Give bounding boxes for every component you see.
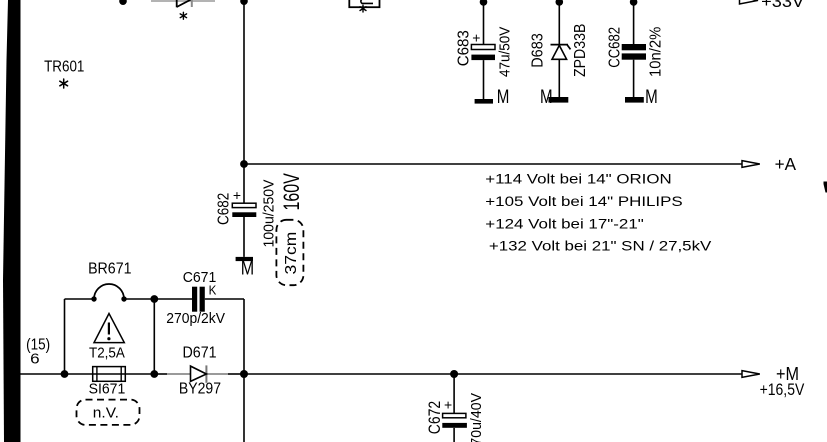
node loop bottom-left xyxy=(61,370,69,378)
ground M (CC682) xyxy=(625,87,658,108)
asterisk under resistor box xyxy=(360,5,366,12)
node loop top-right xyxy=(150,295,158,303)
ground M (C683) xyxy=(475,87,510,108)
capacitor C682 xyxy=(216,164,278,257)
svg-text:M: M xyxy=(241,259,254,280)
wire loop top-left segment xyxy=(65,298,95,300)
svg-text:C672: C672 xyxy=(426,401,444,434)
partial glyph cut at right edge xyxy=(824,182,827,193)
left black margin bar xyxy=(3,0,21,442)
diode (cut off at top edge) xyxy=(177,0,191,7)
asterisk under top diode xyxy=(180,12,186,19)
node top of main vertical xyxy=(240,0,248,5)
svg-text:+114 Volt bei 14" ORION: +114 Volt bei 14" ORION xyxy=(485,171,671,187)
wire +A rail xyxy=(244,163,742,165)
svg-text:+124 Volt bei 17"-21": +124 Volt bei 17"-21" xyxy=(485,217,644,233)
voltage note text block xyxy=(485,171,712,254)
arrow +M xyxy=(742,371,760,378)
fuse SI671 xyxy=(89,367,126,398)
svg-text:+A: +A xyxy=(775,154,797,174)
svg-text:160V: 160V xyxy=(279,173,304,211)
svg-text:SI671: SI671 xyxy=(89,381,126,398)
svg-text:+: + xyxy=(444,396,452,412)
svg-text:TR601: TR601 xyxy=(44,59,84,76)
svg-text:BY297: BY297 xyxy=(179,381,221,398)
svg-text:K: K xyxy=(209,282,217,297)
svg-text:37cm: 37cm xyxy=(283,232,300,275)
node top-left junction xyxy=(119,0,127,5)
node +A junction xyxy=(240,160,248,168)
warning triangle T2,5A xyxy=(89,314,126,362)
wire +M rail xyxy=(244,373,742,375)
capacitor C683 branch xyxy=(456,0,514,99)
svg-text:6: 6 xyxy=(30,351,40,367)
arrow +A xyxy=(742,161,760,168)
zener diode D683 branch xyxy=(530,0,590,97)
resistor box (cut off at top edge) xyxy=(349,0,379,7)
wire loop bottom segment xyxy=(65,373,155,375)
capacitor C671 (series coupling) xyxy=(154,269,244,327)
svg-text:470u/40V: 470u/40V xyxy=(468,393,485,442)
capacitor CC682 branch xyxy=(607,0,665,97)
ground M (C682) xyxy=(236,257,255,280)
asterisk under TR601 xyxy=(60,79,68,88)
capacitor C672 branch xyxy=(426,374,485,442)
svg-text:M: M xyxy=(497,87,510,108)
bridge BR671 arc xyxy=(94,284,124,299)
svg-text:47u/50V: 47u/50V xyxy=(497,27,514,77)
wire loop left vertical xyxy=(64,299,66,374)
svg-text:270p/2kV: 270p/2kV xyxy=(166,311,225,327)
wire top bus (gray, cut off at top edge) xyxy=(151,0,215,2)
diode D671 xyxy=(179,344,221,397)
svg-text:n.V.: n.V. xyxy=(93,405,119,422)
wire main vertical down to +A node xyxy=(243,0,245,164)
svg-text:100u/250V: 100u/250V xyxy=(261,180,278,248)
svg-text:C682: C682 xyxy=(216,193,233,225)
svg-text:D671: D671 xyxy=(183,344,217,361)
note 37cm dashed box xyxy=(276,220,303,285)
svg-text:+105 Volt bei 14" PHILIPS: +105 Volt bei 14" PHILIPS xyxy=(485,194,682,210)
ground M (D683) xyxy=(540,87,568,108)
wire vertical right of C671 down through +M rail to bottom edge xyxy=(243,299,245,442)
wire to D671 (faded gray in scan) xyxy=(154,373,167,375)
wire left feed from margin xyxy=(21,373,65,375)
wire loop top-right segment xyxy=(124,298,154,300)
svg-text:+: + xyxy=(472,29,480,45)
wire loop right vertical xyxy=(153,299,155,374)
node main bottom junction xyxy=(240,370,248,378)
svg-text:+: + xyxy=(233,187,241,203)
node fuse-diode junction xyxy=(150,370,158,378)
svg-text:BR671: BR671 xyxy=(88,260,131,277)
arrow +33V (cut off at top edge) xyxy=(740,0,805,11)
svg-text:D683: D683 xyxy=(530,33,547,68)
svg-text:CC682: CC682 xyxy=(607,27,624,68)
svg-text:+16,5V: +16,5V xyxy=(760,380,805,399)
svg-text:+132 Volt bei 21" SN / 27,5kV: +132 Volt bei 21" SN / 27,5kV xyxy=(489,238,712,254)
svg-text:C683: C683 xyxy=(456,30,473,66)
svg-text:T2,5A: T2,5A xyxy=(89,344,126,361)
svg-text:ZPD33B: ZPD33B xyxy=(572,24,589,77)
node C672 junction xyxy=(450,370,458,378)
note n.V. dashed box xyxy=(77,400,140,425)
svg-text:10n/2%: 10n/2% xyxy=(648,26,665,77)
svg-text:M: M xyxy=(645,87,658,108)
svg-text:+33V: +33V xyxy=(761,0,805,11)
